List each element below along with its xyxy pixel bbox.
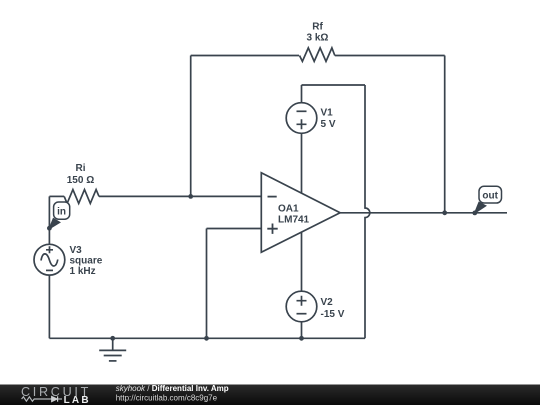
flag out — [474, 186, 501, 213]
svg-text:Rf: Rf — [312, 22, 323, 33]
wire: non-inverting input vertical drop — [206, 229, 208, 339]
node: non-inverting to ground rail junction — [204, 336, 209, 341]
op-amp OA1 — [261, 173, 340, 252]
wire: feedback left vertical segment — [190, 56, 192, 197]
svg-text:http://circuitlab.com/c8c9g7e: http://circuitlab.com/c8c9g7e — [116, 393, 218, 402]
svg-text:out: out — [482, 191, 498, 202]
svg-text:Ri: Ri — [76, 163, 86, 174]
wire: feedback top horizontal right segment — [335, 55, 445, 57]
resistor Ri — [64, 190, 99, 204]
svg-text:V2: V2 — [321, 297, 334, 308]
node: ground junction — [110, 336, 115, 341]
node: in flag attachment dot — [47, 226, 52, 231]
wire: Ri to inverting input — [99, 195, 261, 197]
CircuitLab logo squiggle (resistor + diode) — [22, 396, 62, 401]
svg-text:1 kHz: 1 kHz — [70, 266, 96, 277]
wire: bottom ground rail — [49, 337, 365, 339]
wire: feedback top horizontal left segment — [191, 55, 299, 57]
node: feedback to output junction — [442, 210, 447, 215]
flag in — [49, 202, 70, 229]
source V2 — [286, 291, 317, 338]
resistor Rf — [300, 48, 335, 62]
svg-text:V3: V3 — [70, 245, 83, 256]
node: out flag attachment dot — [472, 211, 477, 216]
svg-text:LAB: LAB — [64, 395, 91, 405]
svg-text:5 V: 5 V — [321, 119, 336, 130]
svg-text:skyhook / Differential Inv. Am: skyhook / Differential Inv. Amp — [116, 384, 229, 393]
ground — [99, 338, 126, 361]
svg-text:V1: V1 — [321, 108, 334, 119]
wire: V1 to V2 power vertical (behind op-amp) — [301, 133, 303, 291]
wire: feedback right vertical segment — [444, 56, 446, 213]
svg-text:in: in — [57, 207, 66, 218]
svg-text:3 kΩ: 3 kΩ — [307, 33, 329, 44]
svg-text:square: square — [70, 256, 103, 267]
svg-text:-15 V: -15 V — [321, 309, 345, 320]
node: feedback junction at inverting input wire — [188, 194, 193, 199]
wire: input left corner vertical (in node) — [48, 196, 50, 244]
node: V2 to ground rail junction — [299, 336, 304, 341]
wire: right power drop with hop over output — [365, 85, 370, 338]
source V3 (square wave) — [34, 244, 65, 275]
wire: V3 bottom to ground rail — [48, 275, 50, 338]
wire: non-inverting input horizontal — [207, 228, 262, 230]
wire: input horizontal lead to Ri — [49, 195, 64, 197]
svg-text:LM741: LM741 — [278, 215, 310, 226]
wire: V1 top horizontal to right drop — [302, 84, 366, 86]
wire: output horizontal — [340, 212, 507, 214]
svg-text:150 Ω: 150 Ω — [67, 175, 94, 186]
svg-text:OA1: OA1 — [278, 203, 299, 214]
source V1 — [286, 85, 317, 133]
